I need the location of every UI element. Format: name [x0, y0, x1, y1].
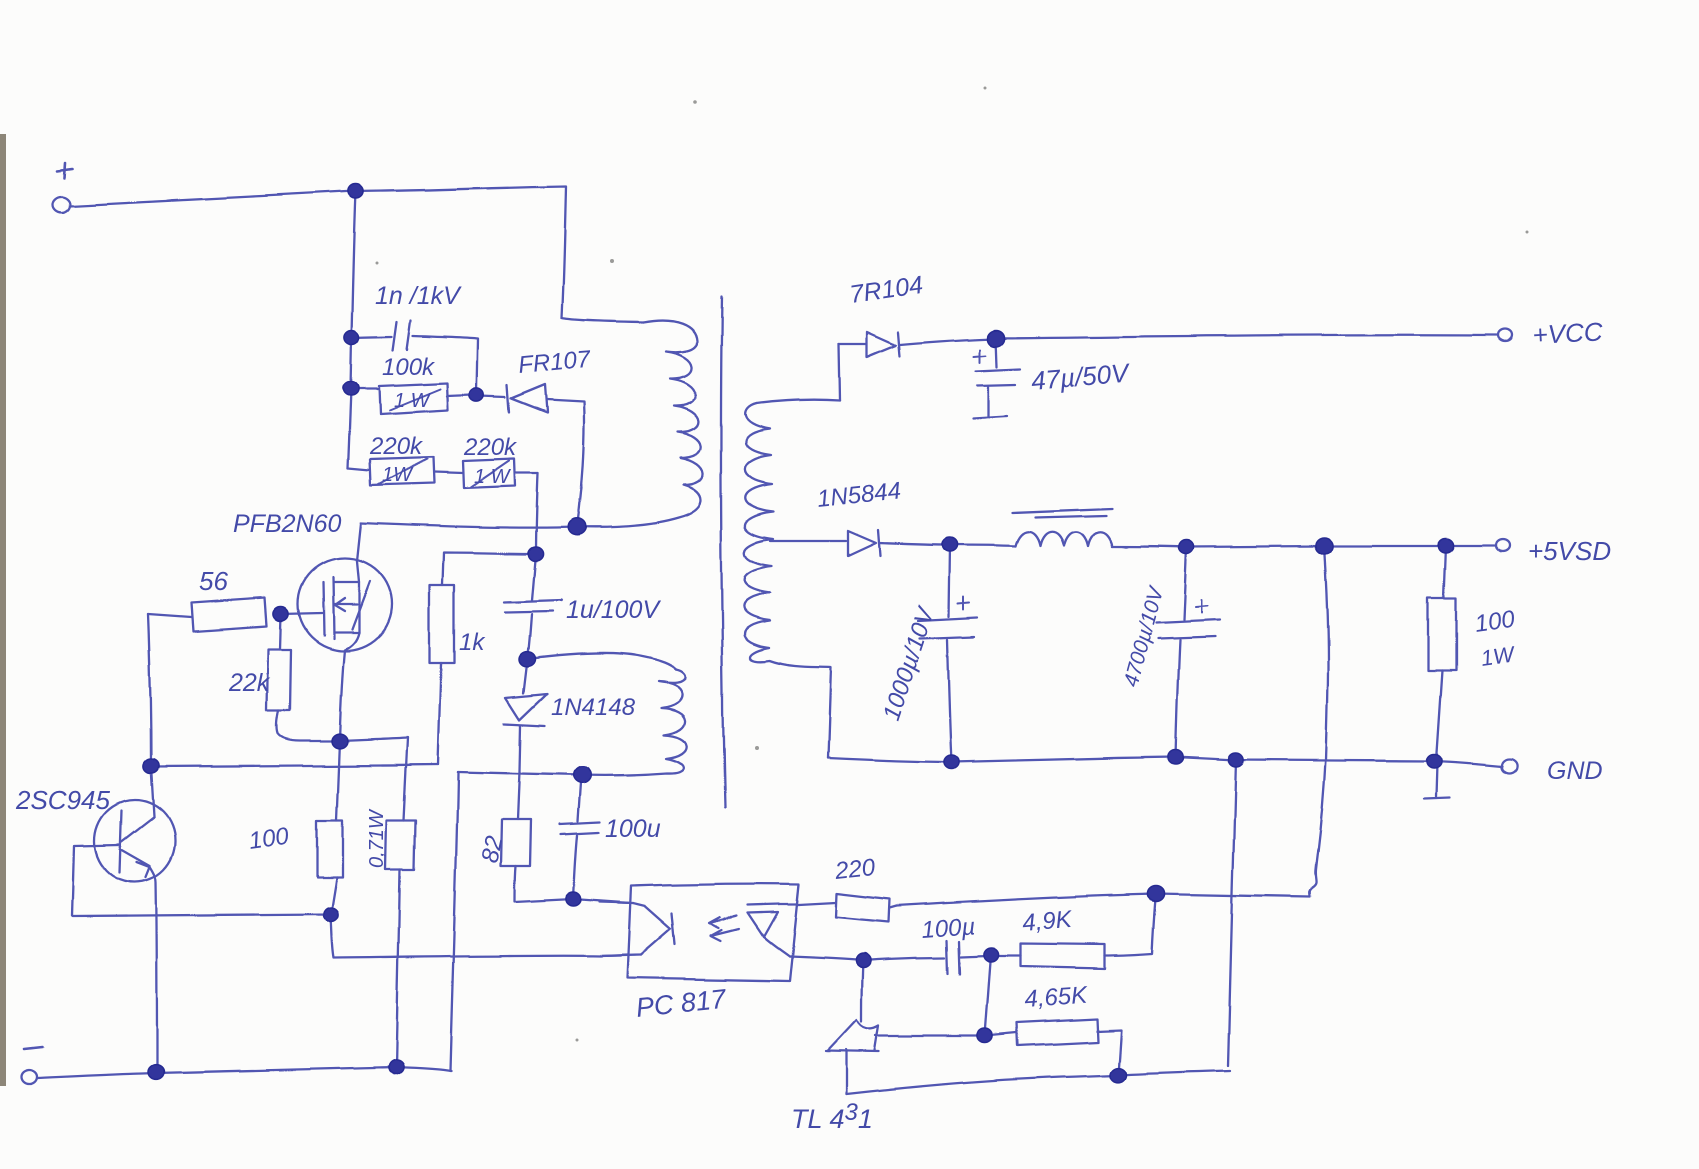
node RC to diode	[470, 388, 484, 401]
node gnd rail c	[1228, 753, 1243, 767]
PC817 emission arrows	[709, 916, 739, 941]
scanner edge strip left	[0, 134, 6, 1086]
diode D 1N4148	[505, 659, 547, 820]
wire source node to 0.71W	[340, 738, 407, 820]
wire VCC rail	[996, 335, 1498, 338]
svg-text:1n /1kV: 1n /1kV	[375, 282, 462, 310]
wire aux winding top lead	[528, 653, 676, 670]
svg-text:+VCC: +VCC	[1532, 316, 1604, 350]
resistor R 220k 1W (left)	[348, 457, 463, 485]
transistor Q2 2SC945	[95, 800, 175, 882]
capacitor C1 1n/1kV	[352, 320, 478, 393]
transformer aux winding P2	[458, 670, 688, 775]
node gnd rail b	[1168, 750, 1183, 764]
wire 220k to gate-node vertical	[532, 473, 538, 600]
wire gate lead	[281, 613, 322, 614]
transformer secondary winding S1	[744, 403, 773, 647]
node GND terminal	[1502, 759, 1517, 773]
svg-text:4,65K: 4,65K	[1024, 982, 1089, 1013]
svg-text:1 W: 1 W	[474, 466, 512, 488]
svg-text:100µ: 100µ	[921, 913, 977, 944]
wire 1k bottom to left node	[152, 765, 438, 767]
diode D 1N5844	[848, 530, 950, 556]
transformer core	[721, 297, 725, 808]
wire TL431 ref	[876, 1035, 985, 1037]
node aux top junction	[520, 652, 536, 667]
svg-text:56: 56	[199, 566, 228, 596]
node gate	[273, 607, 288, 621]
node tl431 rail junction	[1111, 1068, 1127, 1083]
wire base loop 2SC945	[72, 845, 331, 916]
svg-text:1N4148: 1N4148	[551, 694, 636, 721]
node snubber cap left	[344, 330, 359, 344]
svg-text:2SC945: 2SC945	[15, 785, 110, 815]
node 5v rail c	[1438, 539, 1453, 553]
node vcc diode out	[987, 330, 1004, 346]
resistor R 220k 1W (right)	[463, 459, 538, 488]
inductor L1	[950, 508, 1187, 547]
wire gnd to tl431 rail drop	[1228, 760, 1236, 1066]
node 100u right	[983, 947, 998, 961]
wire PC817 anode pin	[600, 902, 633, 903]
node minus rail 0.71W	[388, 1060, 403, 1074]
node minus terminal	[21, 1047, 43, 1084]
wire TL431 anode rail	[847, 1071, 1230, 1094]
wire 56 left vertical to node	[148, 614, 151, 766]
wire 100u to ref node vertical	[985, 954, 991, 1036]
diode PC817 LED	[600, 903, 675, 956]
node feedback junction	[1147, 886, 1164, 902]
capacitor C 100u aux	[560, 775, 600, 899]
svg-text:+5VSD: +5VSD	[1528, 536, 1611, 566]
capacitor C 1u/100V	[503, 600, 562, 659]
node aux bottom junction	[573, 767, 591, 783]
svg-text:1u/100V: 1u/100V	[566, 596, 661, 624]
node source	[332, 734, 348, 749]
node ref junction	[977, 1029, 992, 1043]
node A top rail junction	[348, 184, 363, 198]
node +5VSD terminal	[1496, 540, 1510, 552]
diode D FR104	[868, 332, 996, 357]
svg-text:100u: 100u	[605, 815, 661, 843]
resistor R 22k	[267, 614, 340, 741]
wire 82 node to PC817	[574, 899, 631, 903]
wire 5VSD to opto feedback drop	[1310, 546, 1328, 897]
transformer secondary winding top lead	[756, 399, 840, 403]
node + terminal	[52, 163, 72, 213]
transistor PC817 photo side	[748, 904, 799, 956]
svg-text:100k: 100k	[382, 354, 436, 381]
node 5v diode out	[942, 538, 957, 552]
wire secondary tap to 1N5844	[770, 540, 846, 542]
node gnd rail a	[944, 755, 959, 769]
svg-text:GND: GND	[1547, 757, 1603, 785]
resistor R 220	[799, 893, 896, 922]
wire feedback horizontal to 220	[896, 894, 1310, 906]
resistor R 4.9K	[996, 943, 1105, 968]
resistor R 82 vertical	[501, 820, 574, 902]
wire collector lead	[151, 766, 154, 817]
node +VCC terminal	[1498, 329, 1512, 341]
resistor R 0.71W vertical	[385, 820, 415, 1067]
svg-text:1W: 1W	[382, 464, 414, 486]
node collector top	[143, 759, 158, 773]
capacitor C 47u/50V	[973, 338, 1020, 419]
wire gnd rail	[828, 757, 1503, 766]
svg-text:1k: 1k	[459, 629, 486, 656]
node opto emitter junction	[855, 953, 870, 967]
svg-text:220: 220	[833, 854, 877, 885]
svg-text:220k: 220k	[369, 433, 424, 460]
svg-text:PFB2N60: PFB2N60	[233, 510, 341, 538]
resistor R 56	[148, 598, 267, 631]
capacitor C 1000u/10V	[918, 545, 978, 762]
node gate drive top	[528, 547, 543, 561]
resistor R 100 1W right	[1424, 546, 1456, 799]
node 82-100u junction	[566, 892, 581, 906]
wire aux return down to minus rail	[450, 772, 458, 1071]
wire node to 1k top	[442, 553, 536, 585]
optocoupler U1 PC817 box	[627, 884, 799, 981]
wire 100 bottom to PC817 LED cathode	[331, 914, 627, 958]
wire FR104 branch	[839, 344, 867, 400]
node 5v rail a	[1179, 540, 1194, 554]
wire drain rail	[357, 523, 577, 561]
wire + terminal to top junction	[70, 191, 356, 206]
wire snubber left vertical	[348, 191, 356, 468]
resistor R 1k vertical	[429, 585, 454, 765]
resistor R 4.65K	[985, 1019, 1122, 1075]
transformer secondary bottom lead	[750, 647, 831, 758]
resistor R 100 vertical	[317, 820, 343, 914]
wire 4.9K right lead up	[1105, 894, 1156, 955]
wire emitter to minus rail	[150, 867, 157, 1072]
wire mosfet source down	[337, 649, 345, 820]
resistor R 100k 1W	[351, 383, 472, 414]
diode FR107	[480, 384, 585, 527]
wire minus rail	[37, 1067, 451, 1078]
svg-text:1W: 1W	[1479, 641, 1517, 671]
wire PC817 transistor emitter lead	[789, 956, 863, 960]
svg-text:100: 100	[247, 823, 291, 855]
node base-100 junction	[323, 907, 338, 921]
wire 5VSD rail	[1187, 546, 1496, 547]
svg-text:1 W: 1 W	[394, 390, 432, 412]
svg-text:82: 82	[476, 834, 508, 866]
wire top rail to transformer primary	[356, 186, 643, 322]
svg-text:22k: 22k	[228, 669, 271, 697]
mosfet Q1 PFB2N60 body	[298, 558, 392, 650]
svg-text:220k: 220k	[463, 434, 518, 461]
node minus rail emitter	[148, 1065, 164, 1080]
node drain junction	[568, 519, 586, 535]
node gnd rail d	[1426, 754, 1441, 768]
node 5v rail b	[1315, 538, 1332, 554]
transformer primary winding P1	[577, 320, 703, 527]
capacitor C 100u bottom	[863, 940, 987, 973]
capacitor C 4700u/10V	[1156, 547, 1220, 757]
node snubber res left	[343, 382, 358, 396]
svg-text:TL 431: TL 431	[791, 1099, 873, 1134]
svg-text:0,71W: 0,71W	[366, 808, 388, 868]
svg-text:100: 100	[1473, 606, 1517, 638]
regulator U2 TL431	[826, 960, 879, 1094]
paper specks	[376, 87, 1529, 1042]
svg-text:4,9K: 4,9K	[1021, 906, 1074, 937]
